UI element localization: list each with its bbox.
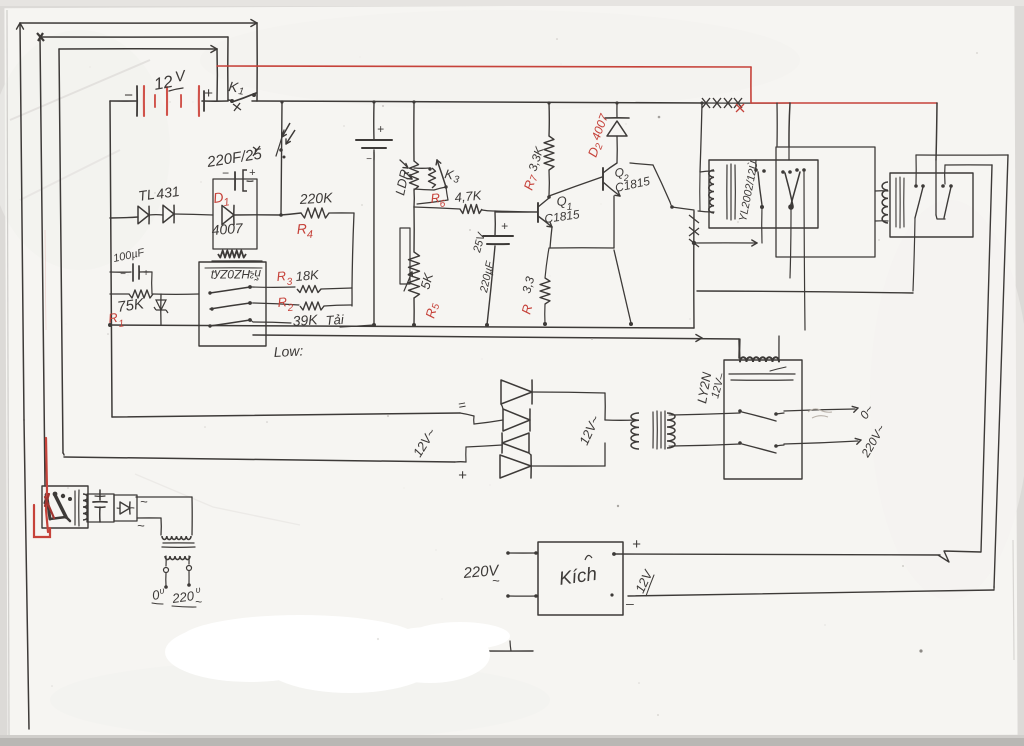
svg-text:Tải: Tải	[325, 312, 345, 328]
svg-text:+: +	[377, 122, 384, 136]
svg-text:+: +	[632, 536, 641, 553]
svg-text:4,7K: 4,7K	[454, 188, 483, 205]
svg-text:220K: 220K	[298, 189, 333, 207]
svg-text:431: 431	[155, 183, 180, 202]
svg-text:+: +	[501, 219, 508, 233]
svg-text:ǹ̃²̵HZ0Zʎ̵ʇ: ǹ̃²̵HZ0Zʎ̵ʇ	[210, 267, 261, 282]
svg-text:Low:: Low:	[273, 342, 303, 360]
svg-text:−: −	[366, 154, 372, 165]
svg-text:4: 4	[307, 229, 314, 241]
svg-text:+: +	[143, 268, 149, 279]
svg-text:~: ~	[137, 518, 145, 533]
svg-text:4007: 4007	[211, 220, 244, 238]
svg-text:−: −	[120, 269, 126, 280]
svg-text:–: –	[625, 595, 634, 611]
svg-text:R: R	[277, 294, 288, 310]
svg-text:+: +	[204, 85, 213, 102]
svg-text:18K: 18K	[295, 267, 321, 284]
svg-text:Q: Q	[556, 193, 567, 209]
svg-text:~: ~	[140, 494, 148, 509]
svg-text:R: R	[276, 268, 287, 284]
svg-text:39K: 39K	[292, 311, 319, 329]
svg-text:+: +	[249, 167, 256, 179]
svg-text:−: −	[124, 87, 133, 104]
svg-text:TL: TL	[137, 186, 155, 204]
svg-text:~: ~	[492, 573, 500, 588]
svg-text:+: +	[458, 467, 467, 484]
